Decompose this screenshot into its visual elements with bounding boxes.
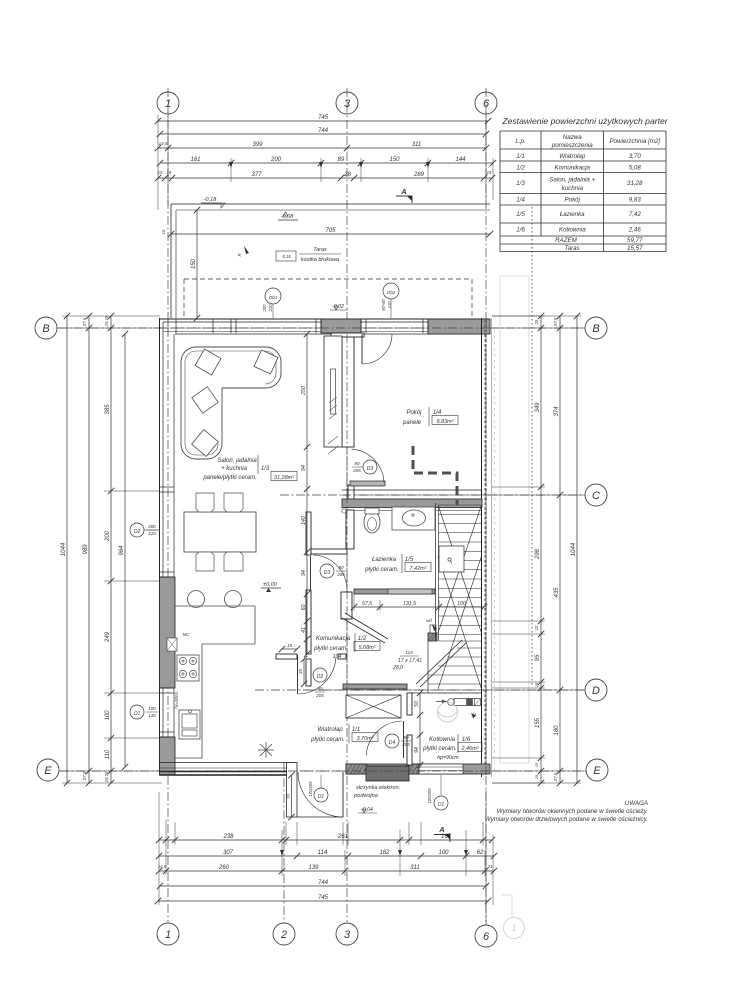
wardrobe along wall [324,336,342,447]
svg-text:3: 3 [344,98,351,110]
bathroom wall pipe circle [342,509,346,513]
top wall inner frame lines [163,331,321,333]
svg-text:1: 1 [165,98,171,110]
svg-text:UWAGA: UWAGA [625,800,648,807]
pokoj entry door leaf [350,481,385,486]
svg-text:1/3: 1/3 [516,180,525,187]
svg-text:35: 35 [298,669,303,675]
svg-text:hv=90cm: hv=90cm [174,691,179,709]
svg-text:-0,02: -0,02 [332,304,344,310]
svg-text:C: C [592,490,600,502]
svg-text:205: 205 [336,572,345,577]
svg-text:O2: O2 [134,529,141,535]
svg-text:D1: D1 [318,794,325,800]
door label D3 salon [320,564,334,578]
svg-text:Wymiary otworów drzwiowych pod: Wymiary otworów drzwiowych podane w świe… [485,816,648,823]
bottom wall left glazed band [160,762,295,764]
terrace door to pokoj leaf [361,334,363,364]
svg-text:1/5: 1/5 [405,557,414,563]
svg-text:114: 114 [318,850,328,856]
left dimension chain 27.5/989/27.5 [88,316,90,783]
kotlownia outlined square [475,699,481,706]
svg-text:15: 15 [534,762,539,767]
svg-text:14,5: 14,5 [159,141,168,146]
svg-text:15: 15 [287,643,293,648]
svg-text:21: 21 [486,864,493,869]
svg-text:2: 2 [280,929,287,941]
top wall pier between windows [321,319,361,333]
svg-text:±0,00: ±0,00 [263,582,278,588]
wall piece right of D2 [338,654,346,659]
svg-text:311: 311 [412,142,422,148]
svg-text:989: 989 [83,544,89,555]
svg-text:745: 745 [318,115,329,121]
svg-text:745: 745 [318,895,329,901]
kotlownia dark square [467,699,473,706]
axis circle B right [585,317,607,339]
svg-text:250: 250 [301,386,307,396]
svg-text:2,46m²: 2,46m² [460,746,478,752]
sofa L-shape outer [181,347,281,459]
svg-text:panele/płytki ceram.: panele/płytki ceram. [202,475,256,481]
svg-text:Łazienka: Łazienka [372,557,397,563]
svg-text:62: 62 [477,850,484,856]
axis3 wall top tee [331,333,364,337]
terrace dim 150 [196,210,198,318]
svg-text:27,5: 27,5 [553,317,558,327]
svg-text:-0,18: -0,18 [204,197,217,203]
svg-text:200: 200 [147,524,156,529]
svg-text:1/4: 1/4 [433,410,442,416]
left wall window O1 glazing [162,688,164,737]
svg-text:+ kuchnia: + kuchnia [221,466,248,472]
svg-text:399: 399 [252,142,263,148]
stair cross lines [438,505,482,633]
svg-text:15: 15 [161,229,166,234]
corridor-salon wall upper [306,512,311,555]
svg-text:41: 41 [301,627,307,633]
svg-text:15,57: 15,57 [627,245,643,252]
entrance niche floor line [297,816,343,818]
axis 3 [346,88,348,922]
axis circle B left [35,317,57,339]
electric box in wall [366,766,409,781]
entrance door dim 65 [291,775,293,817]
svg-text:131,5: 131,5 [403,601,416,607]
svg-text:Komunikacja: Komunikacja [555,165,591,172]
chair top-left [196,493,214,512]
svg-text:94: 94 [414,747,420,753]
svg-text:100: 100 [457,601,466,607]
svg-text:skrzynka elektron.: skrzynka elektron. [356,785,400,791]
chair top-right [224,493,243,512]
svg-text:10: 10 [534,625,539,630]
top wall outer line [160,318,491,320]
snowflake symbol [258,742,274,758]
kotlownia interior dim [419,693,421,765]
axis 6 [485,88,487,925]
kotlownia boiler cylinder [454,699,480,706]
svg-text:B: B [42,323,49,335]
svg-text:1044: 1044 [571,542,577,556]
svg-text:349: 349 [535,402,541,413]
wall below bathroom door [341,592,352,619]
kotlownia door D4 arc [366,721,402,755]
sofa pillow 3 [192,387,218,413]
svg-text:Zestawienie powierzchni użytko: Zestawienie powierzchni użytkowych parte… [501,116,668,126]
svg-text:964: 964 [119,545,125,556]
right dimension chain 1044 [576,316,578,783]
dining table [184,512,256,552]
stool 1 [188,591,205,608]
svg-text:180: 180 [554,725,560,736]
svg-text:Salon, jadalnia +: Salon, jadalnia + [549,177,595,184]
bathroom vanity [392,507,435,530]
top wall window Ob1 glazing [231,321,321,323]
svg-text:150: 150 [191,258,197,269]
kotlownia west wall upper [407,693,412,715]
dim 35 wiatrolap [303,659,305,684]
chair bottom-left [196,552,214,571]
svg-text:65: 65 [286,793,291,799]
table grid [500,131,666,252]
svg-text:Łazienka: Łazienka [560,211,585,218]
svg-text:27,5: 27,5 [82,317,87,327]
svg-text:podwójna: podwójna [353,793,378,799]
interior dim chain x307 [306,334,308,654]
svg-text:Taras: Taras [313,247,327,253]
svg-text:744: 744 [318,128,329,134]
svg-text:90+60: 90+60 [381,298,386,310]
corridor-salon wall lower [306,590,311,654]
svg-text:1/1: 1/1 [516,153,525,160]
svg-text:Wiatrołap: Wiatrołap [559,153,586,160]
kitchen sink [179,710,200,739]
wiatrolap top wall [343,684,407,689]
svg-text:Kotłownia: Kotłownia [559,227,586,234]
svg-text:7,42m²: 7,42m² [409,566,426,572]
svg-text:15: 15 [158,170,163,175]
svg-text:200: 200 [105,530,111,542]
top wall window Ob2 glazing [361,321,428,323]
entrance niche pier [287,763,298,818]
sofa pillow 1 [195,349,221,375]
svg-text:1/2: 1/2 [358,636,367,642]
svg-text:59,77: 59,77 [627,237,643,244]
corridor-salon wall into wiatrolap [306,659,311,686]
svg-text:25,15: 25,15 [104,315,109,327]
kotlownia top boundary [412,692,482,694]
svg-text:205: 205 [315,693,324,698]
svg-text:7,42: 7,42 [629,211,642,218]
terrace dim 705 [171,233,490,235]
svg-text:1044: 1044 [61,542,67,556]
wiatrolap wardrobe crossed box [346,695,401,718]
top wall glazing corner window [163,321,231,323]
svg-text:57,5: 57,5 [362,601,372,607]
svg-text:110: 110 [105,749,111,759]
svg-text:hp=90cm: hp=90cm [437,755,459,761]
svg-text:205: 205 [352,468,361,473]
svg-text:210: 210 [147,531,156,536]
svg-text:162: 162 [379,850,390,856]
svg-text:94: 94 [301,570,307,576]
hall door D2 leaf [297,655,299,694]
top wall frame ticks [175,319,177,333]
svg-text:B: B [592,323,599,335]
kitchen half wall [276,654,297,659]
svg-text:385: 385 [105,404,111,415]
svg-text:-0,04: -0,04 [361,807,373,813]
axis3 wall salon/pokoj [342,334,354,447]
svg-text:D3: D3 [324,570,331,576]
svg-text:9,83: 9,83 [629,197,642,204]
svg-text:płytki ceram.: płytki ceram. [364,567,399,573]
salon door leaf [310,556,312,590]
window label Ob2 [383,283,399,299]
svg-text:MC: MC [183,632,190,637]
axis circle 1 top [157,92,179,114]
terrace outline [171,203,490,205]
axis circle 1 bottom [157,923,179,945]
top dimension chain 745 [158,120,488,122]
svg-text:150: 150 [389,157,400,163]
svg-text:249: 249 [105,631,111,643]
window label O2 left [130,523,144,537]
chair bottom-right [224,552,243,571]
window label O1 bottom [434,796,448,810]
axis 2 [283,762,285,922]
axis circle E right [586,759,608,781]
kitchen counter [175,606,255,758]
right exterior wall [481,318,483,777]
svg-text:90: 90 [317,686,323,691]
window label O1 left [130,705,144,719]
axis circle D right [585,679,607,701]
svg-text:94: 94 [301,465,307,471]
svg-text:Komunikacja: Komunikacja [316,636,351,642]
svg-text:6: 6 [483,931,490,943]
interior dim 57.5/131.5/100 [354,606,484,608]
svg-text:27,5: 27,5 [82,771,87,781]
dim 15 at kitchen wall [282,648,297,650]
svg-text:E: E [593,765,601,777]
bottom dimension chain 307/114/162/100/62 [159,855,494,857]
svg-text:płytki ceram.: płytki ceram. [310,737,345,743]
svg-text:płytki ceram.: płytki ceram. [313,646,348,652]
svg-text:139: 139 [308,865,319,871]
svg-text:Salon, jadalnia: Salon, jadalnia [217,458,257,464]
svg-text:O1: O1 [134,711,141,717]
svg-text:pomieszczenia: pomieszczenia [551,142,593,149]
left dimension 964 interior [124,334,126,767]
axis circle C right [585,484,607,506]
stair break line [416,640,462,684]
hall door D2 arc [298,658,336,694]
axis overlays through walls [346,334,348,700]
svg-text:R: R [237,253,242,256]
svg-text:Pokój: Pokój [406,410,422,416]
diagonal stair wall [342,618,385,643]
svg-text:60: 60 [301,605,307,611]
svg-text:114: 114 [405,650,413,655]
svg-text:210: 210 [268,304,273,313]
svg-text:100: 100 [105,710,111,721]
top dimension chain 14.5/399/311 [158,147,486,149]
right dimension chain 25/349/298/10/95/15/155 [540,316,542,783]
kotlownia door O1 opening [419,764,463,774]
svg-text:705: 705 [325,228,336,234]
svg-text:kuchnia: kuchnia [562,185,584,192]
downpipe mark [244,246,249,254]
svg-text:31,28m²: 31,28m² [274,475,294,481]
svg-text:25: 25 [534,319,539,325]
door label D1 [314,788,328,802]
svg-text:80: 80 [403,735,409,740]
svg-text:Powierzchnia [m2]: Powierzchnia [m2] [609,138,660,145]
left wall solid segment mid [160,577,176,688]
bottom dimension chain 14.5/260/139/311/21 [159,870,494,872]
svg-text:144: 144 [455,157,466,163]
svg-text:Wiatrołap: Wiatrołap [317,727,343,733]
svg-text:298: 298 [535,548,541,560]
svg-text:15,25: 15,25 [104,771,109,782]
taras label [276,251,296,261]
svg-text:A: A [400,187,406,196]
svg-text:89: 89 [338,157,345,163]
bathroom west wall [346,510,354,549]
svg-text:18: 18 [167,170,172,175]
axis C [280,494,584,496]
left dimension chain 1044 [66,316,68,783]
upper storey dashed outline [413,446,457,505]
stool 2 [225,591,242,608]
svg-text:wd: wd [426,618,432,623]
svg-text:17 x 17,41: 17 x 17,41 [398,658,422,664]
pokoj bottom wall (axis C) [342,499,482,508]
svg-text:L.p.: L.p. [515,138,525,145]
svg-text:Pokój: Pokój [565,197,581,204]
svg-text:100: 100 [148,706,156,711]
svg-text:5,08m²: 5,08m² [358,645,375,651]
svg-text:D: D [592,685,600,697]
stair treads upper flight [439,504,482,506]
svg-text:1/1: 1/1 [352,727,360,733]
svg-text:Taras: Taras [564,245,579,252]
svg-text:260: 260 [218,865,230,871]
bottom dimension chain 744 [160,885,486,887]
svg-text:27,5: 27,5 [553,772,558,782]
top wall solid right segment [428,319,490,334]
svg-text:1/6: 1/6 [516,227,525,234]
bathroom toilet [364,511,380,533]
gray axis circle [504,918,525,939]
kotlownia boiler circle [438,702,458,722]
axis circle 2 bottom [273,923,295,945]
svg-text:1/2: 1/2 [516,165,525,172]
exterior left wall outer line [159,318,161,775]
top dimension chain 161-200-89-150-144 [160,162,493,164]
bottom wall hatch piers [346,764,366,774]
kitchen MC box [167,638,177,651]
axis circle 3 bottom [336,923,358,945]
door label D3 pokoj [363,460,377,474]
right wall insulation dashes [484,320,486,776]
kotlownia west wall lower [407,735,412,765]
right dimension chain 27.5/374/435/180/27.5 [559,316,561,783]
svg-text:1: 1 [511,923,517,934]
svg-text:261: 261 [337,834,348,840]
window label Ob1 [265,288,281,304]
kotlownia door D4 leaf [403,721,405,758]
door label D4 [385,734,399,748]
svg-text:140: 140 [301,516,307,525]
salon door arc [313,555,347,588]
terrace roof overhang dashed [184,278,472,280]
door label D2 [313,668,327,682]
svg-text:28: 28 [343,172,351,178]
axis E [60,770,584,772]
dotted overhang line through table [531,207,533,686]
svg-text:374: 374 [554,406,560,417]
stair mid landing box [439,546,464,572]
svg-text:95: 95 [535,654,541,661]
top dimension chain 744 [160,133,486,135]
sofa inner back lines [196,351,276,384]
bathroom sink [403,510,426,526]
svg-text:744: 744 [318,880,329,886]
bottom dimension chain 238/261/167 [159,839,492,841]
stair west line [435,503,437,641]
svg-text:panele: panele [402,420,422,426]
svg-text:D3: D3 [367,466,374,472]
svg-text:238: 238 [222,834,234,840]
svg-text:Ob2: Ob2 [387,290,396,295]
svg-text:104: 104 [333,654,342,660]
svg-text:E: E [44,765,52,777]
axis D [255,689,584,691]
axis B [58,327,583,329]
svg-text:3,70m²: 3,70m² [356,736,373,742]
svg-text:130: 130 [148,713,156,718]
svg-text:Nazwa: Nazwa [563,134,582,141]
svg-text:1/3: 1/3 [261,466,270,472]
svg-text:200: 200 [270,157,282,163]
svg-text:161: 161 [190,157,200,163]
svg-text:80: 80 [338,565,344,570]
svg-text:28,0: 28,0 [392,665,403,671]
svg-text:Ob1: Ob1 [269,295,278,300]
stair treads lower flight [457,647,482,649]
svg-text:15: 15 [534,682,539,687]
svg-text:80: 80 [354,461,360,466]
svg-text:19: 19 [487,170,492,175]
svg-text:100/205: 100/205 [308,781,313,797]
left wall solid segment bottom [160,737,176,775]
svg-text:2,46: 2,46 [628,227,642,234]
bottom dimension chain 745 [158,900,488,902]
svg-text:1/5: 1/5 [516,211,525,218]
svg-text:100: 100 [438,850,449,856]
svg-text:200: 200 [262,304,267,313]
stair pier [428,633,437,641]
svg-text:311: 311 [410,865,420,871]
svg-text:1/4: 1/4 [516,197,525,204]
svg-text:1/6: 1/6 [462,737,471,743]
svg-text:100/205: 100/205 [427,788,432,804]
terrace door to pokoj arc [362,334,392,364]
svg-text:D4: D4 [389,740,396,746]
